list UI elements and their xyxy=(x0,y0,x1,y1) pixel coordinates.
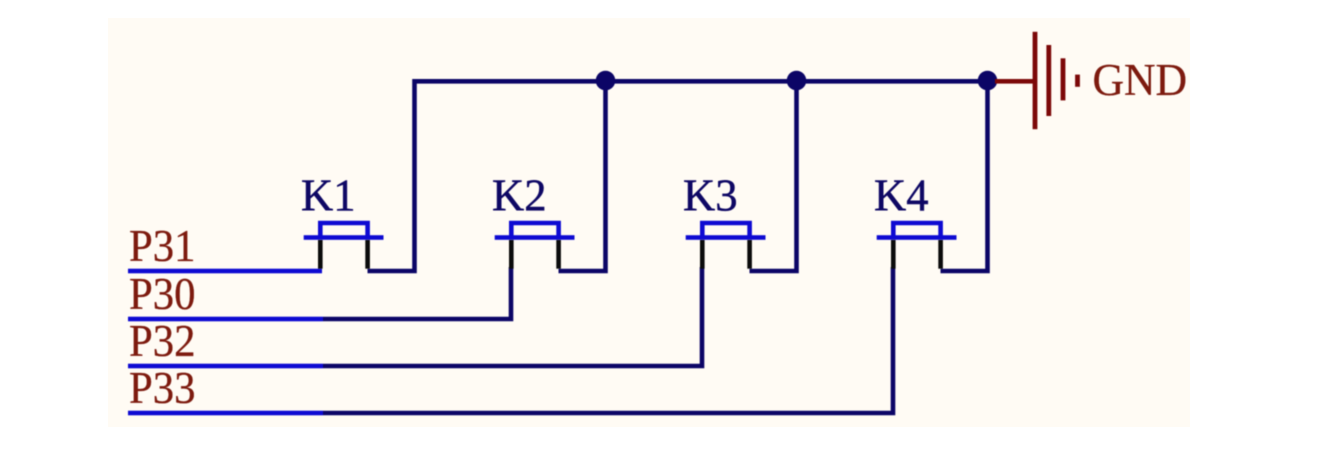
svg-text:K1: K1 xyxy=(301,170,356,221)
schematic cream background xyxy=(108,18,1190,427)
wire GND bus with K1 riser xyxy=(368,81,997,271)
wire P32 net navy segment to K3 left pin xyxy=(323,267,702,366)
junction node at K2 riser xyxy=(596,71,616,91)
wire P30 net label segment (bright blue) xyxy=(128,317,323,322)
wire P31 net (bright blue) xyxy=(128,269,322,274)
ground wire (maroon) xyxy=(995,79,1036,84)
svg-text:P30: P30 xyxy=(129,270,196,319)
wire K2 right pin to bus riser xyxy=(559,81,606,271)
pushbutton K1 xyxy=(304,223,384,269)
pushbutton K3 xyxy=(686,223,766,269)
svg-text:K3: K3 xyxy=(683,170,738,221)
pushbutton K2 xyxy=(495,223,575,269)
wire P33 net label segment (bright blue) xyxy=(128,411,323,416)
svg-text:P31: P31 xyxy=(129,222,196,271)
ground bar 4 xyxy=(1075,75,1080,87)
svg-text:K4: K4 xyxy=(874,170,929,221)
wire P33 net navy segment to K4 left pin xyxy=(323,267,893,413)
svg-text:P33: P33 xyxy=(129,364,196,413)
wire K4 right pin to bus riser xyxy=(941,81,988,271)
junction node at K4 riser xyxy=(978,71,998,91)
svg-text:P32: P32 xyxy=(129,317,196,366)
svg-text:GND: GND xyxy=(1093,54,1188,105)
ground bar 1 xyxy=(1033,32,1038,129)
wire K3 right pin to bus riser xyxy=(750,81,797,271)
svg-text:K2: K2 xyxy=(492,170,547,221)
pushbutton K4 xyxy=(877,223,957,269)
junction node at K3 riser xyxy=(787,71,807,91)
ground bar 2 xyxy=(1046,45,1051,116)
wire P30 net navy segment to K2 left pin xyxy=(323,267,511,319)
ground bar 3 xyxy=(1061,58,1066,100)
wire P32 net label segment (bright blue) xyxy=(128,364,323,369)
